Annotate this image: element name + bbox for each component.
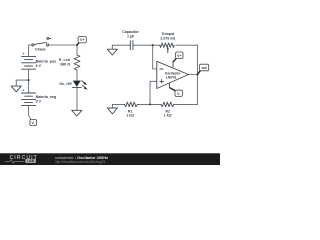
wire LED to ground: [76, 88, 78, 111]
svg-text:Bateria_pos: Bateria_pos: [36, 59, 57, 63]
svg-text:Trimpot: Trimpot: [161, 32, 175, 36]
wire junction to R2: [150, 103, 161, 105]
flag V+ (switch): [77, 37, 86, 46]
junction node output: [196, 73, 198, 75]
wire right rail: [196, 45, 198, 104]
svg-text:Bateria_neg: Bateria_neg: [36, 95, 57, 99]
wire corner down to R_Led: [76, 45, 78, 55]
svg-text:+: +: [22, 88, 24, 92]
logo LAB box: [25, 159, 35, 163]
svg-text:On_Off: On_Off: [59, 82, 72, 86]
wire capacitor to trimpot: [133, 44, 160, 46]
wire R2 to right rail: [174, 103, 197, 105]
capacitor C1: [130, 41, 133, 50]
svg-text:1 µF: 1 µF: [127, 35, 135, 39]
junction node cap/inverting: [152, 44, 154, 46]
svg-text:9 V: 9 V: [36, 100, 42, 104]
wire noninverting input: [150, 81, 157, 104]
resistor R_Led: [74, 55, 80, 70]
flag V- (battery): [30, 119, 37, 125]
switch Chave: [32, 37, 51, 46]
flag out: [197, 64, 208, 74]
svg-text:LM741: LM741: [166, 76, 177, 80]
battery Bateria_neg: [22, 93, 36, 106]
ground (R1): [107, 108, 117, 114]
wire battery2 to V- flag: [29, 106, 31, 120]
junction node R1/R2: [149, 103, 151, 105]
wire inverting input: [153, 45, 157, 69]
ground (batteries): [11, 86, 21, 92]
resistor R1: [124, 102, 137, 107]
junction node V+ rail: [76, 44, 78, 46]
wire trimpot to right rail: [176, 44, 198, 46]
wire switch to V+ corner: [48, 44, 78, 46]
wire R1 to junction: [137, 103, 150, 105]
battery Bateria_pos: [22, 56, 36, 69]
wire left rail top: [29, 45, 33, 56]
wire battery1 to battery2: [28, 69, 30, 93]
wire opamp output: [189, 74, 198, 76]
svg-text:V+: V+: [177, 54, 182, 58]
trimpot: [160, 43, 174, 53]
svg-text:http://circuitlab.com/c/kc42nv: http://circuitlab.com/c/kc42nvbsqj75: [55, 160, 106, 164]
watermark bar: [0, 153, 220, 165]
flag V- (op-amp): [169, 88, 182, 97]
svg-text:1 kΩ: 1 kΩ: [126, 113, 134, 117]
svg-text:cakambio : Oscilador 200Hz: cakambio : Oscilador 200Hz: [55, 155, 108, 160]
wire ground branch: [16, 80, 28, 86]
ground (capacitor): [107, 49, 117, 55]
svg-text:9 V: 9 V: [36, 64, 42, 68]
wire R_Led to LED: [76, 70, 78, 81]
ground (LED): [72, 110, 82, 116]
svg-text:1 kΩ: 1 kΩ: [164, 113, 172, 117]
LED On_Off: [72, 81, 87, 90]
svg-text:V+: V+: [80, 38, 85, 42]
logo waveform: [5, 160, 24, 163]
svg-text:680 Ω: 680 Ω: [60, 63, 70, 67]
wire cap ground stem: [112, 45, 130, 49]
svg-text:Chave: Chave: [35, 48, 46, 52]
op-amp U1 Oscilador LM741: [157, 61, 189, 88]
flag V+ (op-amp): [173, 52, 183, 62]
svg-text:2.076 kΩ: 2.076 kΩ: [160, 37, 175, 41]
wire bottom ground to R1: [112, 104, 124, 108]
svg-text:R_Led: R_Led: [59, 58, 70, 62]
svg-text:Capacitor: Capacitor: [122, 30, 139, 34]
junction node battery/ground: [28, 79, 30, 81]
svg-text:+: +: [23, 52, 25, 56]
svg-text:out: out: [201, 66, 207, 70]
resistor R2: [161, 102, 174, 107]
svg-text:LAB: LAB: [27, 159, 35, 163]
